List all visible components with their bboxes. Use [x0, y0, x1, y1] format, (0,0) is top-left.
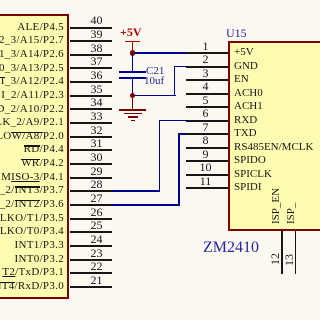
capacitor C21 value 10uf — [144, 75, 164, 87]
pin 33 number — [84, 110, 109, 122]
U15 pin 1 number — [193, 40, 218, 52]
U15 pin 4 name ACH0 — [234, 87, 263, 100]
pin 38 label — [0, 48, 64, 61]
U15 pin 6 name RXD — [234, 114, 257, 127]
wire +5V rail to U15 pin 1 — [132, 52, 186, 54]
U15 pin 2 name GND — [234, 60, 258, 73]
pin 24 stub — [70, 245, 112, 247]
pin 34 number — [84, 96, 109, 108]
pin 23 number — [84, 247, 109, 259]
pin 24 label — [15, 239, 64, 252]
ground symbol bar 2 — [124, 113, 142, 115]
pin 39 number — [84, 28, 109, 40]
U15 pin 12 name ISP_EN (vertical) — [271, 184, 282, 224]
pin 38 stub — [70, 54, 112, 56]
pin 25 number — [84, 219, 109, 231]
U15 pin 7 name TXD — [234, 127, 257, 140]
capacitor C21 top plate — [119, 71, 146, 73]
ground symbol bar 1 — [119, 109, 146, 111]
pin 28 label — [0, 184, 64, 197]
U15 pin 7 number — [193, 121, 218, 133]
pin 26 number — [84, 206, 109, 218]
pin 32 number — [84, 124, 109, 136]
pin 37 label — [0, 62, 64, 75]
power symbol +5V text — [120, 27, 142, 38]
pin 35 stub — [70, 95, 112, 97]
IC U? (MCU) body — [0, 14, 69, 299]
pin 37 number — [84, 55, 109, 67]
pin 33 stub — [70, 122, 112, 124]
pin 35 number — [84, 83, 109, 95]
pin 40 stub — [70, 27, 112, 29]
U15 pin 1 name +5V — [234, 46, 254, 59]
U15 pin 13 stub (vertical) — [295, 230, 297, 274]
pin 31 stub — [70, 149, 112, 151]
pin 23 label — [15, 253, 64, 266]
U15 pin 3 stub — [186, 79, 228, 81]
pin 38 number — [84, 42, 109, 54]
pin 39 label — [0, 34, 64, 47]
U15 pin 6 stub — [186, 120, 228, 122]
U15 pin 10 stub — [186, 174, 228, 176]
wire RXD: U15 pin 6 to MCU pin 28 — [159, 120, 187, 122]
U15 pin 7 stub — [186, 133, 228, 135]
U15 pin 11 stub — [186, 187, 228, 189]
U15 pin 5 name ACH1 — [234, 100, 263, 113]
U15 pin 9 name SPIDO — [234, 154, 266, 167]
pin 27 number — [84, 192, 109, 204]
pin 27 label — [0, 198, 64, 211]
pin 39 stub — [70, 40, 112, 42]
pin 32 stub — [70, 136, 112, 138]
wire C21 bottom lead — [132, 79, 134, 97]
ground symbol bar 3 — [128, 116, 138, 118]
pin 36 label — [0, 75, 64, 88]
pin 26 stub — [70, 218, 112, 220]
pin 30 label — [21, 157, 64, 170]
U15 designator — [226, 27, 247, 40]
U15 pin 4 number — [193, 80, 218, 92]
pin 29 stub — [70, 177, 112, 179]
pin 36 stub — [70, 81, 112, 83]
U15 pin 12 number (rotated) — [269, 253, 281, 265]
pin 31 number — [84, 137, 109, 149]
U15 pin 13 number (rotated) — [283, 254, 295, 266]
pin 33 label — [0, 116, 64, 129]
pin 40 number — [84, 14, 109, 26]
pin 30 number — [84, 151, 109, 163]
pin 37 stub — [70, 67, 112, 69]
U15 pin 5 number — [193, 94, 218, 106]
pin 22 number — [84, 260, 109, 272]
U15 pin 13 name ISP_ (vertical) — [286, 194, 297, 224]
pin 21 stub — [70, 286, 112, 288]
U15 pin 4 stub — [186, 93, 228, 95]
U15 pin 2 number — [193, 53, 218, 65]
pin 31 label — [24, 143, 64, 156]
pin 27 stub — [70, 204, 112, 206]
pin 35 label — [0, 89, 64, 102]
U15 pin 11 name SPIDI — [234, 181, 262, 194]
ground symbol bar 4 — [131, 120, 135, 122]
U15 pin 8 stub — [186, 147, 228, 149]
U15 pin 10 name SPICLK — [234, 168, 272, 181]
U15 pin 12 stub (vertical) — [281, 230, 283, 274]
wire GND: U15 pin 2 to ground junction — [174, 66, 186, 68]
wire C21 top lead — [132, 53, 134, 72]
pin 30 stub — [70, 163, 112, 165]
pin 28 number — [84, 178, 109, 190]
U15 pin 3 name EN — [234, 73, 249, 86]
U15 pin 2 stub — [186, 66, 228, 68]
pin 25 label — [0, 225, 64, 238]
pin 22 stub — [70, 272, 112, 274]
pin 23 stub — [70, 259, 112, 261]
pin 32 label — [0, 130, 64, 143]
U15 pin 10 number — [193, 161, 218, 173]
wire TXD: U15 pin 7 to MCU pin 27 — [178, 133, 186, 135]
pin 28 stub — [70, 190, 112, 192]
op IC U15 body — [228, 41, 320, 231]
pin 34 stub — [70, 108, 112, 110]
pin 21 label — [0, 280, 64, 293]
ground symbol stem — [132, 96, 134, 110]
U15 pin 9 number — [193, 148, 218, 160]
node junction at +5V / pin1 wire — [130, 50, 136, 56]
pin 36 number — [84, 69, 109, 81]
part value label ZM2410 — [203, 240, 259, 255]
power symbol +5V bar — [125, 41, 140, 43]
pin 29 label — [1, 171, 64, 184]
U15 pin 5 stub — [186, 106, 228, 108]
pin 40 label — [17, 21, 64, 34]
pin 29 number — [84, 165, 109, 177]
U15 pin 1 stub — [186, 52, 228, 54]
capacitor C21 bottom plate — [119, 77, 146, 79]
U15 pin 9 stub — [186, 160, 228, 162]
U15 pin 11 number — [193, 175, 218, 187]
node junction at ground / C21 — [130, 93, 136, 99]
capacitor C21 designator — [146, 65, 164, 77]
U15 pin 8 name RS485EN MCLK — [234, 141, 313, 154]
U15 pin 3 number — [193, 67, 218, 79]
pin 25 stub — [70, 231, 112, 233]
pin 21 number — [84, 274, 109, 286]
pin 34 label — [0, 103, 64, 116]
U15 pin 8 number — [193, 134, 218, 146]
power symbol +5V stem — [132, 41, 134, 54]
pin 24 number — [84, 233, 109, 245]
pin 26 label — [0, 212, 64, 225]
pin 22 label — [2, 266, 64, 279]
U15 pin 6 number — [193, 107, 218, 119]
